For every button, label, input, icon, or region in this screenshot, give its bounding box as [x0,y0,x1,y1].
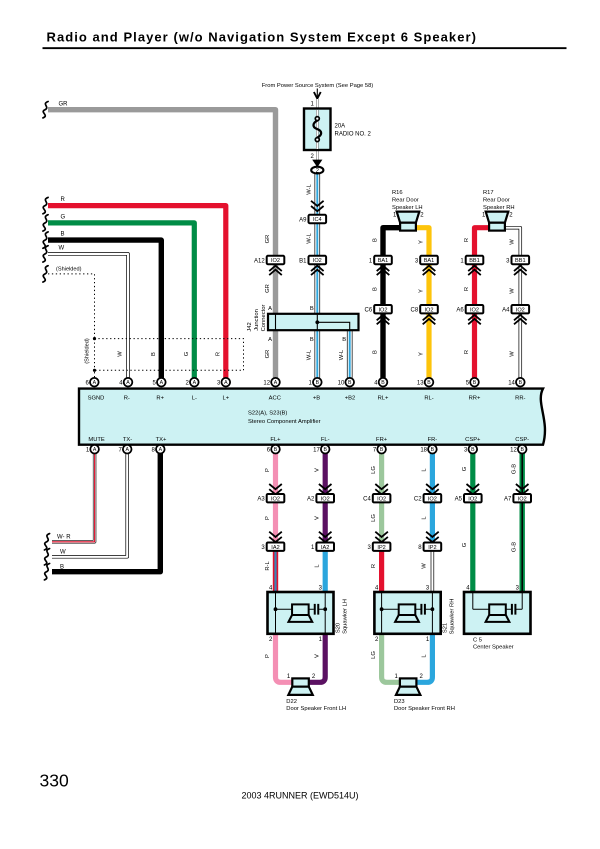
svg-text:TX-: TX- [123,437,132,443]
label Y mid [418,289,424,293]
svg-text:L: L [422,654,428,658]
svg-text:3: 3 [367,545,371,551]
svg-text:RR-: RR- [515,395,525,401]
arrow into A4 IO2 [514,315,527,324]
label L upper [422,468,428,472]
connector A3 IO2 [257,494,284,503]
wire LG FR+ [379,452,384,543]
S21 pin 4 [375,586,379,592]
svg-text:CSP+: CSP+ [465,437,481,443]
R17 pin 2 [509,213,513,219]
label shielded [56,267,82,273]
label P upper [265,468,271,472]
amp name S22 S23 [248,411,287,417]
svg-text:1: 1 [460,258,464,264]
svg-text:W: W [60,550,66,556]
wire W from radio [48,254,128,380]
amp pin 4(A) R- [119,378,132,387]
amp label CSP- [515,437,529,443]
svg-text:Connector: Connector [261,305,267,332]
D22 pin 2 [312,674,316,680]
svg-text:14: 14 [508,380,515,386]
svg-text:R-: R- [124,395,130,401]
connector A9 IC4 [299,215,326,224]
label W lower [510,351,516,357]
svg-text:A: A [193,380,197,386]
amp label TX- [123,437,132,443]
svg-text:D22: D22 [286,699,297,705]
svg-text:4: 4 [119,380,123,386]
amp pin 6(A) SGND [86,378,99,387]
svg-text:B: B [61,232,65,238]
svg-text:B: B [274,447,278,453]
label Squawker RH [449,599,455,635]
svg-text:B: B [471,447,475,453]
svg-text:5: 5 [153,380,157,386]
amp pin 3(A) L+ [217,378,230,387]
svg-text:Y: Y [418,352,424,356]
amp label FR- [428,437,438,443]
svg-text:B: B [380,447,384,453]
svg-text:RADIO NO. 2: RADIO NO. 2 [335,132,372,138]
svg-text:R: R [464,350,470,354]
svg-text:+B2: +B2 [345,395,355,401]
break symbol R [43,197,48,213]
svg-text:L: L [422,468,428,472]
amp label SGND [88,395,105,401]
wire G CSP+ [470,452,475,593]
svg-text:W-L: W-L [306,349,312,360]
svg-text:IO2: IO2 [470,307,479,313]
svg-text:2003 4RUNNER (EWD514U): 2003 4RUNNER (EWD514U) [242,791,359,801]
svg-text:GR: GR [265,284,271,293]
svg-text:B: B [431,447,435,453]
svg-text:4: 4 [466,586,470,592]
amp name stereo component amplifier [248,419,321,425]
label W-R [57,535,71,541]
svg-text:P: P [265,654,271,658]
squawker S21 internals [380,593,435,634]
svg-text:330: 330 [40,770,69,790]
svg-text:FR+: FR+ [376,437,388,443]
svg-text:(Shielded): (Shielded) [85,338,91,364]
label W-L below IC4 [306,232,312,243]
amp pin 1(A) MUTE [86,445,99,454]
label B mid [372,287,378,291]
svg-text:FR-: FR- [428,437,438,443]
svg-text:3: 3 [415,258,419,264]
label B lower [372,350,378,354]
svg-text:A9: A9 [299,217,307,223]
svg-text:SGND: SGND [88,395,105,401]
label Squawker LH [343,599,349,634]
svg-text:Y: Y [418,289,424,293]
svg-text:A: A [93,380,97,386]
amp pin 14(B) RR- [508,378,524,387]
svg-text:G-B: G-B [512,464,518,474]
label R lower [464,350,470,354]
svg-text:Squawker RH: Squawker RH [449,599,455,635]
svg-text:B: B [60,564,64,570]
amp label CSP+ [465,437,481,443]
wire through fuse [316,99,319,166]
svg-text:B: B [372,238,378,242]
speaker R16 Rear Door Speaker LH [397,212,420,231]
svg-text:R: R [464,287,470,291]
connector A6 IO2 [456,305,483,314]
label R-L lower [265,561,271,571]
amp pin 3(B) CSP+ [464,445,477,454]
J42 pin A lower [268,337,272,343]
svg-text:B1: B1 [299,258,307,264]
label B [61,232,65,238]
R16 pin 1 [393,213,397,219]
wire L to door speaker RH [416,633,432,682]
svg-text:IO2: IO2 [377,496,386,502]
svg-text:A4: A4 [502,308,510,314]
svg-text:S21: S21 [442,623,448,633]
label W shielded [118,351,124,357]
svg-text:8: 8 [152,447,156,453]
amp pin 7(B) FR+ [373,445,386,454]
connector 1 BB1 [460,256,483,265]
break symbol shield [43,266,48,282]
svg-text:Door Speaker Front LH: Door Speaker Front LH [286,706,346,712]
svg-text:3: 3 [464,447,468,453]
svg-text:W: W [59,246,65,252]
svg-text:BB1: BB1 [469,258,480,264]
label Door Speaker Front LH [286,706,346,712]
label G upper [462,466,468,471]
svg-text:12: 12 [263,380,270,386]
amp label R+ [156,395,164,401]
svg-text:Junction: Junction [254,309,260,331]
S21 pin 1 [426,637,430,643]
svg-text:20A: 20A [335,124,346,130]
svg-text:IA2: IA2 [271,545,279,551]
amp label TX+ [156,437,167,443]
wire L FR- [430,452,435,543]
amp label +B [313,395,320,401]
arrow into C8 IO2 [423,315,436,324]
label R shielded [215,352,221,356]
fuse pin 2 [310,154,314,160]
svg-text:4: 4 [269,586,273,592]
amp label ACC [269,395,281,401]
svg-text:V: V [315,516,321,520]
svg-text:GR: GR [59,101,69,107]
amp label L+ [222,395,229,401]
label G-B upper [512,464,518,474]
svg-text:+B: +B [313,395,320,401]
J42 pin B branch [342,337,346,343]
svg-text:7: 7 [118,447,122,453]
label B shielded [151,352,157,356]
svg-text:A: A [159,447,163,453]
title rule [43,47,567,49]
amplifier S22(A) S23(B) Stereo Component Amplifier [79,389,545,445]
label B upper [372,238,378,242]
connector C4 IO2 [363,494,390,503]
wire L to squawker LH [323,551,328,593]
svg-text:R: R [464,238,470,242]
squawker S20 internals [274,593,328,634]
svg-text:V: V [315,654,321,658]
D23 pin 1 [394,674,398,680]
label G [61,215,66,221]
svg-text:ACC: ACC [269,395,281,401]
break symbol G [43,215,48,231]
svg-text:P: P [265,468,271,472]
J42 junction dot [315,320,319,324]
svg-text:IO2: IO2 [468,496,477,502]
label GR [59,101,69,107]
svg-text:IP2: IP2 [377,545,385,551]
svg-text:3: 3 [217,380,221,386]
arrow into A2 IO2 [319,484,332,494]
svg-text:1: 1 [319,637,323,643]
svg-text:12: 12 [510,447,517,453]
connector 1 BA1 [369,256,392,265]
wire G from radio [48,223,194,380]
svg-text:LG: LG [371,514,377,522]
svg-text:BA1: BA1 [378,258,389,264]
svg-text:R-L: R-L [265,561,271,571]
R17 pin 1 [482,213,486,219]
svg-text:Stereo Component Amplifier: Stereo Component Amplifier [248,419,321,425]
wire V FL- [323,452,328,543]
arrow into 1 BA1 [377,266,390,275]
label V upper [315,468,321,472]
label R17 line3 [483,205,515,211]
svg-text:Door Speaker Front RH: Door Speaker Front RH [394,706,455,712]
connector C6 IO2 [365,305,392,314]
label W-L above IC4 [306,183,312,194]
svg-text:CSP-: CSP- [515,437,529,443]
arrow into A5 IO2 [467,484,480,494]
svg-text:3: 3 [261,545,265,551]
label GR upper [265,235,271,244]
label LG lower [371,651,377,659]
amp label +B2 [345,395,355,401]
arrow into 3 IP2 [375,532,388,542]
svg-text:G-B: G-B [512,542,518,552]
label S20 [336,623,342,633]
svg-text:2: 2 [420,674,424,680]
svg-text:2: 2 [509,213,513,219]
arrow into A3 IO2 [269,484,282,494]
svg-text:IA2: IA2 [321,545,329,551]
label J42 [247,322,253,331]
svg-text:W: W [422,563,428,569]
break symbol B [43,232,48,248]
svg-text:LG: LG [371,466,377,474]
svg-text:2: 2 [375,637,379,643]
svg-text:Rear Door: Rear Door [392,197,419,203]
svg-text:IO2: IO2 [516,307,525,313]
svg-text:W-L: W-L [339,349,345,360]
arrow into C2 IO2 [426,484,439,494]
arrow into 3 BB1 [514,266,527,275]
connector A4 IO2 [502,305,529,314]
svg-text:C 5: C 5 [473,637,482,643]
wire R from radio [48,206,226,380]
wire R to squawker RH [379,551,384,593]
svg-text:S22(A), S23(B): S22(A), S23(B) [248,411,287,417]
svg-text:3: 3 [516,586,520,592]
label Y lower [418,352,424,356]
svg-text:A: A [93,447,97,453]
svg-text:S20: S20 [336,623,342,633]
label P lower [265,654,271,658]
label W [59,246,65,252]
arrow into 1 BB1 [468,266,481,275]
wire W speaker RR- [505,228,520,380]
shield dashed box [95,339,244,378]
svg-text:R16: R16 [392,190,403,196]
label Junction [254,309,260,331]
svg-text:BA1: BA1 [424,258,435,264]
svg-text:B: B [342,337,346,343]
arrow into connector 2 [312,160,322,168]
svg-text:2: 2 [186,380,190,386]
label from power source system [262,83,374,89]
connector C8 IO2 [411,305,438,314]
amp label FL- [321,437,330,443]
svg-text:B: B [520,447,524,453]
svg-text:IO2: IO2 [271,496,280,502]
svg-text:1: 1 [311,545,315,551]
svg-text:C6: C6 [365,308,373,314]
svg-text:6: 6 [86,380,90,386]
squawker S20 box [268,592,334,634]
amp pin 6(B) FL+ [267,445,280,454]
amp label L- [192,395,197,401]
amp pin 7(A) TX- [118,445,131,454]
svg-text:W-L: W-L [306,183,312,194]
label W upper [510,239,516,245]
amp label RR- [515,395,525,401]
svg-text:A6: A6 [456,308,464,314]
label GR mid [265,284,271,293]
amp label FR+ [376,437,388,443]
svg-text:G: G [61,215,66,221]
label R16 line2 [392,197,419,203]
wire P FL+ [273,452,278,543]
title Radio and Player (w/o Navigation System Except 6 Speaker) [47,30,477,45]
wire W TX- [52,452,127,557]
R16 pin 2 [420,213,424,219]
label R [61,197,66,203]
svg-text:1: 1 [369,258,373,264]
label V mid [315,516,321,520]
svg-text:W- R: W- R [57,535,71,541]
connector 3 BB1 [506,256,529,265]
svg-text:TX+: TX+ [156,437,167,443]
amp pin 4(B) RL+ [374,378,387,387]
label R lower [371,564,377,568]
svg-text:13: 13 [417,380,424,386]
label Center Speaker [473,645,514,651]
svg-text:RR+: RR+ [469,395,481,401]
label R17 [483,190,494,196]
svg-text:Rear Door: Rear Door [483,197,510,203]
label R upper [464,238,470,242]
svg-text:C2: C2 [414,497,422,503]
wire W-L fuse to amp +B [314,174,320,381]
arrow into IC4 [311,201,324,211]
arrow into 3 BA1 [423,266,436,275]
shield junction dot lower [93,369,96,372]
svg-text:Center Speaker: Center Speaker [473,645,514,651]
svg-text:A: A [268,337,272,343]
svg-text:B: B [372,287,378,291]
page number 330 [40,770,69,790]
svg-text:IO2: IO2 [378,307,387,313]
connector 3 IA2 [261,543,284,552]
label G shielded [184,351,190,356]
svg-text:Radio and Player (w/o Navigati: Radio and Player (w/o Navigation System … [47,30,477,45]
wire B speaker RL+ [383,228,400,380]
C5 pin 3 [516,586,520,592]
svg-text:(Shielded): (Shielded) [56,267,82,273]
label W mid [510,288,516,294]
svg-text:IO2: IO2 [271,258,280,264]
svg-text:G: G [462,466,468,471]
svg-text:2: 2 [312,674,316,680]
svg-text:IC4: IC4 [313,217,322,223]
svg-text:3: 3 [426,586,430,592]
wire W-R MUTE [52,452,95,542]
label V lower [315,654,321,658]
svg-text:W-L: W-L [306,232,312,243]
svg-text:A12: A12 [254,258,265,264]
svg-text:R: R [371,564,377,568]
amp pin 13(B) RL- [417,378,433,387]
svg-text:3: 3 [506,258,510,264]
amp label RL- [424,395,433,401]
wire W-L branch to +B2 [347,323,353,380]
S21 pin 3 [426,586,430,592]
svg-text:1: 1 [426,637,430,643]
wire G-B CSP- [520,452,525,593]
svg-text:R: R [61,197,66,203]
connector A5 IO2 [455,494,482,503]
wire V to door speaker LH [309,633,326,682]
label Door Speaker Front RH [394,706,455,712]
arrow from power source [314,89,321,105]
J42 pin A upper [268,306,272,312]
svg-text:C4: C4 [363,497,371,503]
svg-text:IO2: IO2 [428,496,437,502]
label shielded rotated [85,338,91,364]
svg-text:A5: A5 [455,497,463,503]
label GR lower [265,350,271,359]
svg-text:L+: L+ [222,395,229,401]
arrow into A12 IO2 [269,266,282,275]
wire B from radio [48,240,161,380]
connector oval 2 [311,167,323,175]
svg-text:3: 3 [319,586,323,592]
fuse label RADIO NO. 2 [335,132,372,138]
svg-text:5: 5 [466,380,470,386]
D23 pin 2 [420,674,424,680]
svg-text:4: 4 [374,380,378,386]
label Connector [261,305,267,332]
svg-text:From Power Source System (See: From Power Source System (See Page 58) [262,83,374,89]
svg-text:B: B [348,380,352,386]
connector A2 IO2 [307,494,334,503]
